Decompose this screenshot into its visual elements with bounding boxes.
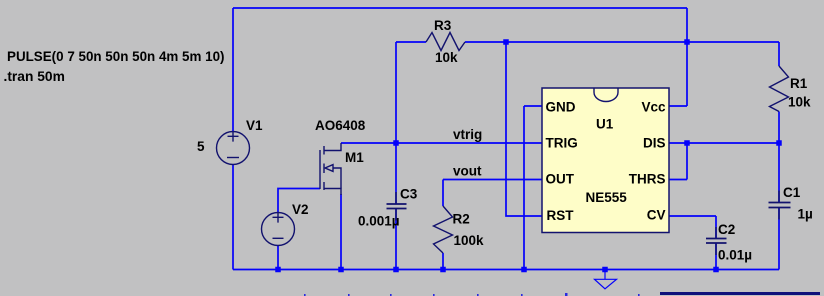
capacitor C2 [706,227,727,255]
junction C2 on ground rail [713,267,719,273]
resistor R2 [434,206,453,253]
svg-text:GND: GND [546,100,576,115]
svg-text:5: 5 [197,139,205,154]
wire bottom rail [233,269,779,271]
svg-text:OUT: OUT [546,172,575,187]
junction ground symbol on rail [602,267,608,273]
svg-text:C2: C2 [718,222,735,237]
voltage source V1 [217,131,250,165]
svg-text:DIS: DIS [643,136,666,151]
junction R2 on ground rail [440,267,446,273]
resistor R3 [426,33,465,51]
wire M1 source drop [340,194,342,270]
wire CV / C2 [669,216,716,270]
wire right drop to Vcc [669,8,687,106]
voltage source V2 [262,212,295,246]
svg-text:CV: CV [647,208,666,223]
wire vtrig [341,142,542,144]
wire V2 bottom [277,246,279,270]
junction DIS/THRS node [684,140,690,146]
svg-text:RST: RST [547,208,575,223]
svg-text:V1: V1 [246,118,263,133]
wire R3 row [396,41,779,43]
svg-text:R2: R2 [453,212,470,227]
svg-text:PULSE(0 7 50n 50n 50n 4m 5m 10: PULSE(0 7 50n 50n 50n 4m 5m 10) [7,49,225,64]
svg-text:100k: 100k [454,233,485,248]
wire top rail [233,7,687,9]
resistor R1 [770,66,789,112]
wire GND feed [524,106,542,270]
svg-text:vtrig: vtrig [453,127,482,142]
junction vtrig/drain node [393,140,399,146]
wire DIS row [669,142,779,144]
svg-text:AO6408: AO6408 [315,118,366,133]
wire R1 C1 column [778,42,780,270]
svg-text:R1: R1 [790,76,808,91]
wire V1 top [232,8,234,132]
junction M1 source on ground rail [338,267,344,273]
svg-text:C1: C1 [783,185,801,200]
bottom tick marks [304,293,640,296]
wire V2 top and gate [278,189,320,213]
svg-text:vout: vout [453,164,482,179]
junction R3/RST node [503,39,509,45]
capacitor C1 [769,191,791,220]
svg-text:M1: M1 [345,150,364,165]
svg-text:10k: 10k [435,50,458,65]
svg-text:R3: R3 [434,18,452,33]
svg-text:V2: V2 [292,202,309,217]
capacitor C3 [387,192,407,221]
svg-text:Vcc: Vcc [641,100,666,115]
svg-text:10k: 10k [788,95,811,110]
junction V2 on ground rail [275,267,281,273]
svg-text:C3: C3 [400,187,418,202]
junction DIS/R1/C1 node [776,140,782,146]
wire RST feed [506,42,542,216]
wire C3 column [395,42,397,270]
junction C3 on ground rail [393,267,399,273]
transistor M1 [320,143,341,195]
svg-text:.tran 50m: .tran 50m [4,69,65,84]
bottom window bar [660,292,820,295]
junction R3/Vcc node [684,39,690,45]
svg-text:TRIG: TRIG [546,136,578,151]
svg-text:0.01µ: 0.01µ [718,248,752,263]
wire V1 bottom [232,165,234,270]
wire THRS link [669,143,687,180]
svg-text:NE555: NE555 [586,190,628,205]
wire OUT / R2 column [443,180,542,270]
ground [595,270,617,289]
svg-text:U1: U1 [596,117,614,132]
svg-text:THRS: THRS [629,172,666,187]
svg-text:0.001µ: 0.001µ [358,214,400,229]
svg-text:1µ: 1µ [798,207,813,222]
junction GND pin on ground rail [521,267,527,273]
IC U1 NE555 body [542,88,669,233]
